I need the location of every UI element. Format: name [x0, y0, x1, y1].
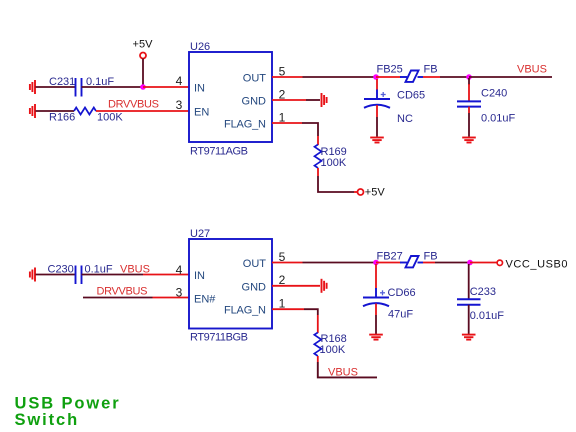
svg-text:1: 1 [279, 296, 286, 310]
wire (down to R168) [317, 315, 319, 333]
svg-text:100K: 100K [320, 344, 346, 356]
svg-text:DRVVBUS: DRVVBUS [97, 286, 148, 298]
power +5V (top) [133, 39, 154, 87]
svg-text:FLAG_N: FLAG_N [224, 119, 266, 131]
wire (junction to U26 pin IN) [143, 86, 189, 88]
svg-text:OUT: OUT [243, 258, 267, 270]
wire (U27 EN# stub) [153, 297, 190, 299]
svg-text:NC: NC [397, 113, 413, 125]
wire (FLAG_N corner down) [304, 309, 318, 315]
ground (right of U26 GND pin) [322, 93, 327, 107]
wire (to net VBUS) [318, 362, 377, 377]
junction (OUT net / CD65) [373, 74, 379, 80]
svg-text:CD66: CD66 [388, 287, 416, 299]
wire (FB25 to junction 2) [423, 76, 440, 78]
wire (OUT to junction) [303, 76, 377, 78]
svg-text:Switch: Switch [15, 411, 80, 429]
wire (FB27 to junction 2) [423, 262, 435, 264]
svg-text:C233: C233 [470, 286, 496, 298]
wire (net VBUS) [469, 76, 552, 78]
wire (R168 down) [317, 356, 319, 362]
wire (to junction 2) [435, 262, 470, 264]
wire (U26 FLAG_N stub) [272, 122, 302, 124]
svg-text:VBUS: VBUS [120, 264, 150, 276]
wire (OUT to junction) [303, 262, 377, 264]
svg-text:RT9711AGB: RT9711AGB [190, 146, 248, 158]
svg-text:4: 4 [176, 263, 183, 277]
svg-text:DRVVBUS: DRVVBUS [108, 99, 159, 111]
ground (left, row IN of U26) [30, 80, 35, 94]
svg-text:C231: C231 [49, 76, 75, 88]
svg-text:FLAG_N: FLAG_N [224, 305, 266, 317]
resistor R168 [314, 333, 346, 357]
svg-text:100K: 100K [97, 112, 123, 124]
wire (R166 to U26 pin EN) [96, 110, 189, 112]
wire (junction to FB25) [376, 76, 401, 78]
svg-text:3: 3 [176, 98, 183, 112]
svg-text:R168: R168 [321, 333, 347, 345]
svg-text:FB: FB [424, 63, 438, 75]
ground (left, row IN of U27) [30, 268, 35, 282]
svg-text:EN: EN [194, 107, 209, 119]
wire (junction to FB27) [376, 262, 401, 264]
junction (VCC_USB0 / C233) [467, 260, 473, 266]
svg-text:4: 4 [176, 74, 183, 88]
svg-text:47uF: 47uF [388, 309, 413, 321]
svg-text:0.01uF: 0.01uF [470, 310, 505, 322]
svg-text:+5V: +5V [133, 39, 154, 51]
svg-text:VBUS: VBUS [517, 64, 547, 76]
wire (U26 GND stub) [272, 99, 306, 101]
ground (below C233) [462, 335, 476, 340]
svg-text:GND: GND [242, 281, 267, 293]
ground (right of U27 GND pin) [322, 279, 327, 293]
svg-text:100K: 100K [321, 157, 347, 169]
port VCC_USB0 [497, 258, 567, 270]
ferrite bead FB25 [377, 63, 438, 82]
wire (to port VCC_USB0) [470, 262, 497, 264]
svg-text:U26: U26 [190, 41, 210, 53]
wire (to gnd symbol) [306, 99, 320, 101]
wire (U27 GND stub) [272, 285, 320, 287]
svg-text:FB27: FB27 [377, 251, 403, 263]
svg-text:FB25: FB25 [377, 64, 403, 76]
svg-text:3: 3 [176, 286, 183, 300]
capacitor CD66 [363, 264, 416, 334]
title USB Power Switch [15, 395, 121, 430]
svg-text:0.01uF: 0.01uF [481, 113, 516, 125]
svg-text:GND: GND [242, 96, 267, 108]
capacitor C233 [457, 264, 504, 334]
wire (red tail to +5V port) [354, 191, 358, 193]
ferrite bead FB27 [377, 251, 438, 268]
IC U27 [189, 228, 272, 344]
ground (below C240) [462, 138, 476, 143]
svg-text:IN: IN [194, 270, 205, 282]
wire (gnd to C231) [36, 86, 76, 88]
power +5V (below R169) [358, 186, 386, 198]
junction (IN net, +5V) [140, 84, 146, 90]
svg-text:C230: C230 [48, 264, 74, 276]
svg-text:VCC_USB0: VCC_USB0 [506, 258, 568, 270]
ground (below CD66) [369, 335, 383, 340]
svg-text:OUT: OUT [243, 73, 267, 85]
resistor R166 [49, 108, 123, 124]
op-amp/IC U26 [189, 41, 272, 158]
svg-text:USB Power: USB Power [15, 395, 121, 413]
wire (C231 to junction) [82, 86, 144, 88]
svg-text:RT9711BGB: RT9711BGB [190, 332, 248, 344]
ground (below CD65) [370, 138, 384, 143]
wire (C230 to U27 IN) [82, 274, 144, 276]
wire (down to R169) [317, 136, 319, 145]
wire (U27 IN stub) [143, 274, 189, 276]
wire (gnd to C230) [36, 274, 76, 276]
svg-text:C240: C240 [481, 88, 507, 100]
svg-text:+5V: +5V [365, 186, 386, 198]
svg-text:EN#: EN# [194, 294, 216, 306]
wire (U27 OUT stub) [272, 262, 303, 264]
capacitor C240 [457, 78, 516, 137]
junction (OUT net / CD66) [373, 260, 379, 266]
wire (gnd to R166) [36, 110, 75, 112]
svg-text:R166: R166 [49, 112, 75, 124]
wire (U27 FLAG_N stub) [272, 308, 304, 310]
capacitor C230 [48, 264, 113, 285]
wire (net DRVVBUS to EN#) [83, 297, 153, 299]
wire (FLAG_N corner down to R169) [302, 123, 318, 136]
svg-text:U27: U27 [190, 228, 210, 240]
capacitor C231 [49, 76, 114, 97]
ground (left, row EN of U26) [30, 104, 35, 118]
resistor R169 [315, 145, 347, 169]
wire (R169 down) [317, 168, 319, 176]
wire (to +5V circle) [318, 176, 354, 192]
svg-text:IN: IN [194, 83, 205, 95]
svg-text:CD65: CD65 [397, 90, 425, 102]
svg-text:FB: FB [424, 251, 438, 263]
capacitor CD65 [364, 79, 425, 137]
wire (to junction 2) [440, 76, 469, 78]
svg-text:VBUS: VBUS [328, 367, 358, 379]
wire (U26 OUT stub) [272, 76, 303, 78]
junction (VBUS / C240) [466, 74, 472, 80]
